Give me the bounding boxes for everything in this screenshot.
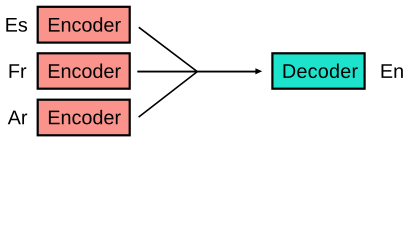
encoder 2 value label — [49, 64, 121, 79]
decoder box (En) — [272, 53, 364, 88]
node label Fr — [10, 64, 27, 78]
wire from encoder 3 to junction — [139, 72, 198, 118]
encoder 1 value label — [49, 17, 121, 32]
encoder box 1 (Es) — [38, 7, 130, 43]
encoder box 2 (Fr) — [38, 53, 130, 88]
node label Es — [6, 18, 27, 32]
wire from encoder 1 to junction — [139, 27, 198, 71]
arrowhead into decoder — [255, 68, 262, 74]
decoder value label — [284, 64, 358, 79]
node label En — [382, 64, 403, 78]
node label Ar — [8, 111, 27, 125]
encoder 3 value label — [49, 110, 121, 125]
encoder box 3 (Ar) — [38, 100, 130, 136]
wire from encoder 2 through junction to decoder (arrow shaft) — [137, 71, 257, 73]
